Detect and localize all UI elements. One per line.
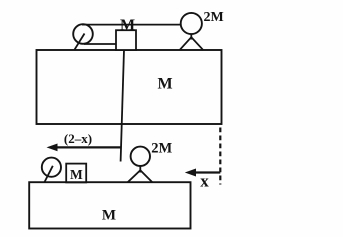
svg-text:x: x [200,171,209,190]
string (bottom, pulley to block M) [84,43,117,45]
svg-text:2M: 2M [151,141,172,157]
label 2M (lower) [151,141,172,157]
man 2M (upper stick figure) [180,13,203,50]
pulley (lower, on plank) [42,158,61,182]
arrow x [185,169,221,177]
label M (lower plank) [102,208,116,224]
svg-text:(2–x): (2–x) [64,131,92,146]
string (top, pulley to man) [82,24,181,26]
plank M (lower large block) [29,182,190,228]
plank M (upper large block) [37,50,222,124]
svg-text:M: M [70,167,83,182]
svg-text:M: M [120,17,135,34]
svg-text:2M: 2M [204,10,224,25]
reference line (from block M down to lower scene) [121,50,124,162]
svg-text:M: M [102,208,116,224]
label x [200,171,209,190]
pulley (upper, on plank) [73,24,93,50]
label M (lower small block) [70,167,83,182]
block M (upper small block) [116,30,136,50]
man 2M (lower stick figure) [128,147,153,183]
label (2-x) [64,131,92,146]
label 2M (upper) [204,10,224,25]
label M (upper small block) [120,17,135,34]
svg-text:M: M [157,75,172,92]
arrow (2-x) [47,144,121,152]
block M (lower small block) [66,164,86,183]
label M (upper plank) [157,75,172,92]
dashed reference line (right) [219,128,221,185]
